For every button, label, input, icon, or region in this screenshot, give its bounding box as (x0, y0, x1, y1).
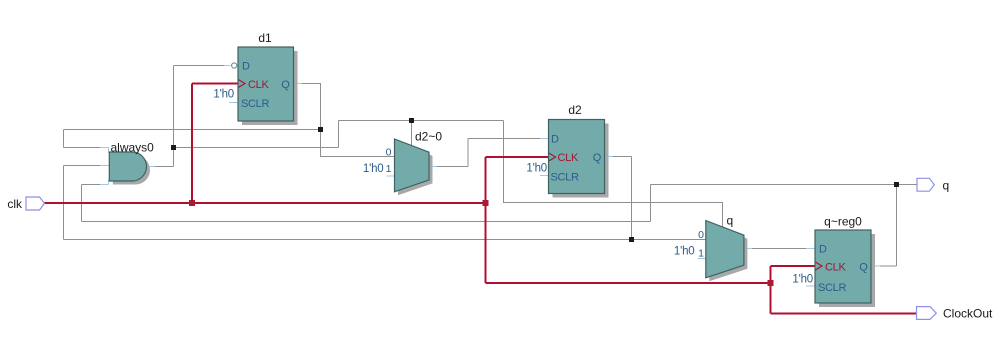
svg-text:1'h0: 1'h0 (792, 273, 813, 285)
pin stub mux d2~0 input1 const (387, 175, 395, 177)
pin stub d1.Q (294, 83, 303, 85)
pin stub mux d2~0 output (429, 166, 437, 168)
pin stub d2.SCLR (540, 175, 548, 177)
AND gate always0 shadow (113, 156, 150, 185)
wire net d1.Q: vertical at x=63.5 down to AND input1 level (63, 130, 65, 148)
wire net q: horizontal y=184.5 from x=650.5 to port q (651, 184, 918, 186)
svg-text:d2~0: d2~0 (415, 130, 442, 144)
wire net always0.out: select branch down into mux d2~0 top (411, 121, 413, 147)
wire net d2.Q: long horizontal y=239.5 from x=63 to mux q input0 (64, 239, 706, 241)
svg-text:q: q (943, 178, 950, 192)
wire net clk: horizontal into d2.CLK (486, 156, 549, 158)
pin stub mux q output (744, 248, 752, 250)
wire net always0.out: horizontal y=203 from x=503.5 to x=723 (504, 202, 724, 204)
wire net clk: horizontal into d1.CLK (192, 83, 238, 85)
wire net d2.Q: horizontal into AND gate input2 (64, 165, 103, 167)
wire net always0.out: vertical at x=338 up to y=120 (338, 121, 340, 148)
svg-text:1'h0: 1'h0 (674, 245, 695, 257)
svg-text:D: D (819, 244, 827, 256)
svg-text:D: D (551, 134, 559, 146)
wire net always0.out: horizontal y=147.5 from junction to x=338 (174, 147, 339, 149)
svg-text:q: q (727, 214, 734, 228)
mux d2~0 body (395, 139, 430, 192)
svg-text:ClockOut: ClockOut (943, 307, 993, 321)
wire net mux d2~0 out: horizontal from mux output (435, 166, 468, 168)
wire net always0.out: vertical at x=173.5 from AND output up to d1.D level (173, 66, 175, 167)
svg-text:1'h0: 1'h0 (213, 89, 234, 101)
pin stub mux q input1 const (698, 258, 706, 260)
svg-text:CLK: CLK (825, 261, 846, 273)
wire net d2.Q: horizontal from d2 Q to corner (611, 156, 632, 158)
junction dot net clk at (192,203) (189, 200, 195, 206)
pin stub q~reg0.Q (872, 265, 881, 267)
junction dot net always0.out at (411.5,120.5) (409, 118, 414, 123)
wire net always0.out: select branch down into mux q top (722, 203, 724, 229)
svg-text:q~reg0: q~reg0 (824, 215, 862, 229)
wire net mux d2~0 out: horizontal into d2.D (468, 138, 542, 140)
svg-text:SCLR: SCLR (551, 171, 579, 183)
flip-flop d1 D input bubble (232, 63, 237, 68)
junction dot net d2.Q at (631.5,239.5) (629, 237, 634, 242)
junction dot net clk at (485.5,203) (483, 200, 489, 206)
svg-text:0: 0 (698, 229, 704, 241)
wire net clk: vertical at x=485.5 from y=157 down to y=283 (485, 157, 487, 283)
wire net always0.out: horizontal y=120 from x=338 to x=503.5 (339, 120, 504, 122)
pin stub AND always0 input3 horizontal (100, 184, 109, 186)
flip-flop d2 shadow (553, 124, 609, 198)
wire net always0.out: horizontal from AND output tip to vertical (154, 166, 174, 168)
svg-text:1'h0: 1'h0 (526, 163, 547, 175)
mux q body (706, 221, 744, 278)
flip-flop d2 clock edge marker (549, 153, 556, 161)
junction dot net q at (896.5,184.5) (894, 182, 899, 187)
svg-text:1: 1 (698, 248, 704, 260)
flip-flop d1 shadow (242, 51, 298, 125)
flip-flop q~reg0 body (815, 230, 871, 303)
wire net q: vertical at x=896.5 up to port q level (896, 185, 898, 267)
wire net q: vertical at x=650.5 down to y=220.5 (650, 185, 652, 222)
svg-text:SCLR: SCLR (818, 282, 846, 294)
svg-text:1: 1 (386, 163, 392, 175)
pin stub AND always0 input1 horizontal (100, 147, 109, 149)
junction dot net d1.Q at (320.5,129.5) (318, 127, 323, 132)
svg-text:CLK: CLK (248, 79, 269, 91)
wire net clk: main horizontal from clk port (45, 202, 486, 204)
svg-text:d2: d2 (568, 103, 582, 117)
flip-flop d1 body (238, 47, 294, 121)
wire net d1.Q: horizontal y=157 to mux d2~0 input 0 (321, 156, 395, 158)
svg-text:Q: Q (593, 152, 602, 164)
pin stub d1.D wire end at bubble (224, 65, 231, 67)
pin stub d2.Q (605, 156, 613, 158)
wire net d2.Q: vertical at x=63 up to AND input2 level (63, 166, 65, 240)
svg-text:d1: d1 (258, 31, 272, 45)
AND gate always0 body (109, 152, 146, 181)
output port ClockOut (917, 307, 937, 320)
mux q shadow (709, 224, 747, 281)
pin stub AND always0 input1 vertical riser (108, 148, 110, 154)
pin stub q~reg0.D (806, 248, 815, 250)
svg-text:Q: Q (281, 79, 290, 91)
input port clk (26, 197, 45, 210)
flip-flop q~reg0 shadow (819, 234, 875, 307)
pin stub AND always0 output (147, 166, 156, 168)
flip-flop q~reg0 clock edge marker (816, 262, 823, 270)
svg-text:D: D (242, 61, 250, 73)
wire net mux q out: horizontal to q~reg0.D (750, 248, 808, 250)
wire net q: horizontal from q~reg0 Q to corner (877, 265, 897, 267)
wire net always0.out: vertical at x=503.5 down to y=203 (503, 121, 505, 204)
wire net clk: vertical at x=770.5 from y=266 down to y=313.5 (770, 266, 772, 314)
pin stub AND always0 input3 vertical riser (108, 180, 110, 185)
junction dot net always0.out at (173.5,147.5) (171, 145, 176, 150)
wire net d1.Q: horizontal from d1 Q to corner (300, 83, 321, 85)
wire net d1.Q: horizontal into AND gate input1 (64, 147, 103, 149)
wire net d1.Q: vertical drop at x=320.5 (320, 84, 322, 158)
wire net q: horizontal into AND gate input3 (82, 184, 103, 186)
wire net mux d2~0 out: vertical at x=468 up to d2.D level (467, 139, 469, 167)
wire net q: long horizontal y=220.5 back to x=80.5 (82, 221, 651, 223)
pin stub AND always0 input2 (100, 165, 109, 167)
wire net d2.Q: vertical at x=631.5 down to y=239.5 (631, 157, 633, 241)
pin stub d1.SCLR (229, 102, 238, 104)
wire net always0.out: horizontal to d1.D bubble (174, 65, 231, 67)
wire net d1.Q: long horizontal y=129.5 to far left (64, 129, 321, 131)
svg-text:always0: always0 (111, 140, 155, 154)
output port q (917, 178, 934, 191)
wire net clk: horizontal into q~reg0.CLK (771, 265, 816, 267)
wire net q: vertical at x=80.5 up to AND input3 level (81, 185, 83, 222)
svg-text:clk: clk (7, 197, 23, 211)
svg-text:SCLR: SCLR (241, 98, 269, 110)
svg-text:1'h0: 1'h0 (363, 163, 384, 175)
pin stub q~reg0.SCLR (806, 285, 815, 287)
flip-flop d1 clock edge marker (239, 80, 246, 88)
junction dot net clk at (770.5,283) (768, 280, 774, 286)
svg-text:Q: Q (859, 261, 868, 273)
svg-text:0: 0 (386, 147, 392, 159)
flip-flop d2 body (549, 120, 605, 194)
wire net clk: vertical at x=192 up to d1.CLK (191, 84, 193, 204)
wire net clk: horizontal to ClockOut port (771, 313, 917, 315)
pin stub d2.D (540, 138, 548, 140)
wire net clk: lower horizontal y=283 to x=770 (486, 282, 771, 284)
mux d2~0 shadow (398, 143, 433, 196)
svg-text:CLK: CLK (558, 152, 579, 164)
